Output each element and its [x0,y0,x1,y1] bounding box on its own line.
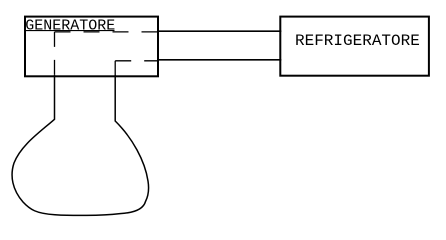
flask outline [12,75,148,215]
generator box [25,17,158,77]
wire bottom pipe dashed segment inside generator [115,60,158,62]
generator label underline [25,30,115,32]
wire bottom pipe vertical dashed segment inside generator [114,61,116,76]
refrigerator box [280,17,429,76]
wire top pipe dashed segment inside generator [55,31,158,33]
wire top pipe vertical dashed segment inside generator [54,32,56,76]
svg-text:REFRIGERATORE: REFRIGERATORE [295,32,420,50]
wire bottom pipe solid segment [157,59,281,61]
wire top pipe solid segment [157,30,281,32]
